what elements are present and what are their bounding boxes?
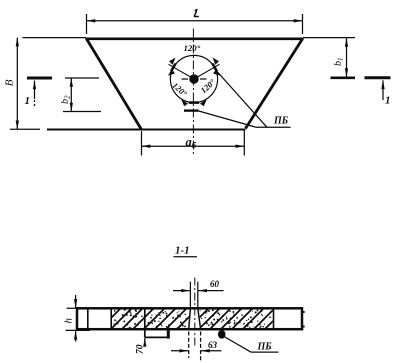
svg-text:1-1: 1-1 [175,245,190,257]
dimension 70 arrow line [144,338,146,346]
dimension 60 right arrow with tail [198,290,223,292]
trapezoid bottom edge [47,129,246,131]
wire: dimension 60 right extension [197,282,199,308]
radial line to upper-left hole [169,64,195,79]
wire: dimension ab left extension [141,131,143,156]
svg-text:70: 70 [136,344,146,354]
bolt circle [170,55,217,102]
wire: dimension l extension line left [86,14,88,34]
hub: central boss (filled) [189,74,198,83]
node: scan nub on plate right edge lower [303,326,305,328]
svg-text:ПБ: ПБ [273,116,289,127]
hole tick upper-right [212,64,217,72]
trapezoid top edge (thick) [86,37,304,40]
svg-text:60: 60 [210,279,220,289]
dimension h top arrow (outside) [75,295,77,308]
vertical centerline of plate (dash-dot) [192,29,194,156]
slot left edge (tapered) [189,308,191,329]
trapezoid right slant edge [246,39,303,129]
wire: leader underline of PB label [255,126,290,128]
wire: dimension B top extension [23,37,87,39]
arc arrowhead above upper-left hole [169,58,175,65]
section marker 1 left: arrow line [34,81,36,100]
wire: leader underline of PB (section) [251,351,279,353]
hole tick bottom [189,101,199,104]
dimension B line with arrows [16,38,18,130]
dimension 60 left arrow [173,290,190,292]
hub horizontal tick left [182,78,189,80]
wire: dimension 63 right extension (dashed) [200,332,202,361]
section marker 1 right: thick line [365,76,391,79]
dowel blob (filled) [218,330,226,339]
anchor hook end bar (thick) [167,328,170,339]
label l (script ell) [194,10,198,17]
wire: dimension 60 left extension [189,282,191,308]
svg-text:1: 1 [25,95,31,107]
dimension b1 line with arrows [346,38,348,77]
svg-text:aб: aб [186,135,197,150]
svg-text:B: B [3,79,15,86]
dimension 63 right arrow with tail [201,350,221,352]
wire: leader B from upper-right hole to label [214,68,268,128]
svg-text:1: 1 [385,95,391,107]
dimension b2 top reference line [65,77,99,79]
plate outline (section) [77,308,302,329]
plate hatch boundary left [110,308,112,329]
plate inner vertical line left end [87,308,89,329]
wire: top edge thin extension right [303,37,355,39]
plate hatch boundary right [273,308,275,329]
anchor hook bottom line [145,336,168,338]
svg-text:b2: b2 [60,95,72,104]
wire: dimension h bottom extension [66,329,91,331]
svg-text:120°: 120° [170,80,189,99]
slot right edge (tapered) [198,308,201,329]
node: scan nub on plate right edge upper [303,311,305,313]
hatched concrete area left [112,309,190,328]
section marker 1 right: arrow line [382,80,384,100]
arc arrowhead below upper-left hole [168,69,175,76]
wire: leader from dowel to PB label [224,337,251,352]
svg-text:h: h [63,318,75,324]
hub horizontal tick right [200,78,207,80]
wire: dimension B bottom extension [10,128,40,130]
wire: underline of 1-1 [174,256,198,258]
dimension 63 left arrow [171,350,188,352]
wire: leader A from bar to label [199,111,256,127]
arc arrowhead right of bottom hole [200,100,207,107]
svg-text:ПБ: ПБ [257,342,273,353]
svg-text:b1: b1 [333,58,345,67]
radial line to upper-right hole [194,64,220,79]
svg-text:63: 63 [208,340,218,350]
wire: dimension 63 left extension (dashed) [188,332,190,359]
dimension h bottom arrow (outside) [75,331,77,342]
section marker 1 left: dash tail [34,100,36,106]
dimension b2 line with arrows [70,78,72,112]
arc arrowhead above upper-right hole [213,58,219,65]
wire: dimension h top extension [67,307,87,309]
hole tick upper-left [171,64,176,72]
dimension b2 bottom reference line [63,111,101,113]
node: reference bar below circle [184,109,199,111]
section marker 1 left: thick line [27,77,52,80]
concrete speckle dots [113,309,271,329]
wire: dimension ab right extension [243,130,245,156]
arc arrowhead below upper-right hole [213,69,220,76]
dimension ab line with arrows [142,145,245,147]
dimension l line with arrows [87,20,303,22]
hatched concrete area right [199,309,273,328]
vertical centerline of section (dash-dot) [194,278,196,349]
arc arrowhead left of bottom hole [181,100,188,107]
dimension b1 bottom tick (thick) [331,77,356,80]
trapezoid left slant edge [86,39,141,130]
wire: dimension l extension line right [302,14,304,34]
svg-text:120°: 120° [184,43,201,53]
anchor rod vertical in plate [144,309,146,338]
